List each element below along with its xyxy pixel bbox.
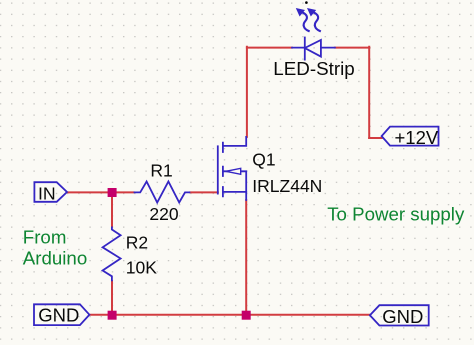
wire top horizontal right (LED to +12V branch) <box>335 47 369 49</box>
svg-text:Arduino: Arduino <box>23 248 87 269</box>
LED triangle <box>305 40 321 57</box>
port GND left <box>34 304 89 325</box>
cursor dot <box>305 1 308 4</box>
LED light arrow 1 <box>302 12 309 31</box>
transistor Q1 source stub <box>223 191 246 193</box>
svg-text:GND: GND <box>382 306 423 327</box>
junction at rail source <box>242 311 251 320</box>
wire bottom ground rail <box>89 314 370 316</box>
wire Q1 source down to rail <box>245 200 247 315</box>
svg-text:220: 220 <box>149 204 178 224</box>
svg-text:R1: R1 <box>150 161 172 181</box>
wire right vertical (top corner down to +12V) <box>368 47 370 138</box>
svg-text:LED-Strip: LED-Strip <box>273 58 354 79</box>
junction at rail left <box>108 311 117 320</box>
svg-text:GND: GND <box>38 305 79 326</box>
resistor R1 <box>134 182 191 203</box>
svg-text:Q1: Q1 <box>252 150 275 170</box>
LED D1 leads <box>292 47 335 49</box>
port +12V <box>382 127 439 149</box>
transistor Q1 channel segments <box>222 143 224 197</box>
wire junction down to R2 <box>111 192 113 226</box>
svg-text:IRLZ44N: IRLZ44N <box>252 176 322 196</box>
transistor Q1 body arrow <box>226 168 241 174</box>
svg-text:R2: R2 <box>126 233 148 253</box>
LED arrowhead 2 <box>307 8 316 17</box>
wire IN to junction <box>67 191 112 193</box>
port IN <box>34 182 67 203</box>
wire left vertical (top corner down to Q1 drain) <box>246 47 248 137</box>
wire R2 to bottom rail <box>111 281 113 315</box>
transistor Q1 drain stub <box>223 137 246 146</box>
resistor R2 <box>103 227 121 282</box>
svg-text:IN: IN <box>38 183 56 203</box>
LED light arrow 2 <box>313 12 320 31</box>
transistor Q1 body stub <box>223 171 246 200</box>
svg-text:To Power supply: To Power supply <box>327 203 465 224</box>
transistor Q1 gate bar <box>217 146 219 193</box>
svg-text:From: From <box>23 226 67 247</box>
port GND right <box>370 305 429 327</box>
wire junction to R1 <box>112 191 134 193</box>
junction at IN node <box>108 188 117 197</box>
wire R1 to Q1 gate <box>190 191 218 193</box>
LED arrowhead 1 <box>296 8 305 17</box>
wire +12V stub <box>369 137 381 139</box>
svg-text:+12V: +12V <box>395 127 439 148</box>
wire top horizontal left (drain to LED) <box>247 47 292 49</box>
LED cathode bar <box>304 38 306 60</box>
svg-text:10K: 10K <box>126 258 157 278</box>
